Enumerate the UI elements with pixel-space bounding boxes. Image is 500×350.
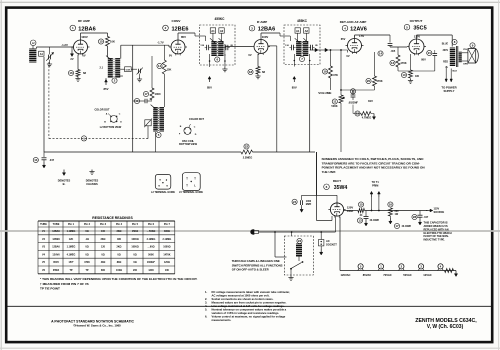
wire V3 plate to IF2 [261,33,290,41]
svg-text:2.1MEG: 2.1MEG [163,238,172,241]
AC socket [319,232,338,255]
resistor R4 15K AVC [157,45,172,107]
oscillator grid capacitor C5 56MMF [133,98,152,103]
svg-text:TUBE: TUBE [53,223,60,226]
svg-text:COLOR DOT: COLOR DOT [95,109,110,112]
resistance readings table title [92,216,133,220]
svg-text:0V: 0V [169,54,172,58]
tuning capacitor C1A [46,47,53,67]
svg-text:0Ω: 0Ω [85,246,88,249]
V1 cathode lead [77,55,79,70]
svg-text:2.1MEG: 2.1MEG [147,238,156,241]
svg-text:MMF: MMF [306,203,312,206]
svg-text:14: 14 [379,52,383,56]
svg-text:100: 100 [165,269,170,272]
resistor R10 4.7MEG [353,107,376,120]
svg-text:455KC: 455KC [297,19,308,23]
resistor R2 10K screen dropper [98,33,115,58]
wire V4 plate coupling [355,35,391,43]
svg-text:0V: 0V [82,54,85,58]
voltage -1.2V at V1 grid [61,43,68,47]
svg-text:115V: 115V [434,208,440,211]
wire V3 stage return to bus [269,46,277,152]
svg-text:ZENITH MODELS C634C,: ZENITH MODELS C634C, [415,318,477,324]
svg-text:19: 19 [323,70,327,74]
capacitor C11 .02 to cathode line [398,50,437,71]
svg-text:TUBE: TUBE [40,223,47,226]
svg-text:40-40MF: 40-40MF [370,219,380,222]
svg-text:IF AMP: IF AMP [257,20,267,24]
B- bus wire [44,151,315,153]
note text numbers assigned to coils [322,157,425,174]
resistor R9 470K [366,52,383,90]
svg-text:CONV: CONV [172,19,182,23]
svg-text:6.: 6. [205,315,207,319]
oscillator coil ref number [156,132,161,137]
label V1 RF AMP 12BA6 [70,19,96,33]
svg-text:470K: 470K [376,79,382,83]
svg-text:500K: 500K [148,253,154,256]
svg-text:120: 120 [101,246,106,249]
svg-text:2KΩ: 2KΩ [117,246,122,249]
svg-text:SUPPLY: SUPPLY [444,89,455,93]
svg-text:5.6K: 5.6K [126,70,131,72]
svg-text:15: 15 [99,40,103,44]
numbered notes list [205,290,290,322]
footer photofact notation [51,319,134,327]
svg-text:L2 TERMINAL GUIDE: L2 TERMINAL GUIDE [151,191,175,194]
clock timer dashed box [284,236,313,275]
svg-text:65V: 65V [341,37,346,41]
wires to T1 primary [365,191,428,211]
heater V2 [383,264,404,277]
L2 terminal guide box [151,174,175,194]
svg-text:85V: 85V [292,86,297,90]
svg-text:0Ω: 0Ω [117,253,120,256]
svg-text:480: 480 [117,238,122,241]
svg-text:TP: TP [85,269,88,272]
svg-text:measurements.: measurements. [212,318,232,322]
svg-text:3KΩ: 3KΩ [101,238,106,241]
svg-text:10: 10 [402,73,406,77]
svg-text:Measured values are from socke: Measured values are from socket pin to c… [212,301,287,305]
ground V1 cathode [75,77,80,82]
svg-text:85V: 85V [104,87,109,91]
svg-text:BLK: BLK [453,71,458,73]
svg-text:85V: 85V [207,86,212,90]
oscillator grid resistor R5 1000 [143,56,161,100]
heater V5 [341,264,364,277]
svg-text:.047: .047 [49,159,54,162]
tube V5 35C5 [407,37,426,55]
svg-text:85V: 85V [181,35,186,39]
svg-text:DENOTES: DENOTES [86,179,99,183]
svg-text:13: 13 [34,158,38,162]
svg-text:35W4: 35W4 [53,269,60,272]
svg-text:13: 13 [358,219,362,223]
AC line wire [259,217,336,258]
svg-text:16: 16 [389,203,393,207]
V5 voltages [414,35,426,62]
wire antenna to V1 grid [36,47,73,49]
volume control wiring [330,49,375,152]
L5 terminal guide box [179,173,203,194]
filament string resistor [445,269,454,273]
filament string B- return [454,271,457,277]
label TO POWER SUPPLY [441,86,456,94]
V5 cathode resistor R15 180 ohm [401,54,419,83]
svg-text:† MEASURED FROM PIN 7 OF V6: † MEASURED FROM PIN 7 OF V6 [40,282,89,286]
svg-text:455KC: 455KC [215,17,226,21]
tube V1 12BA6 [72,38,90,55]
svg-text:70VAC: 70VAC [383,273,392,277]
speaker [462,43,479,63]
svg-text:35C5: 35C5 [413,26,426,32]
svg-text:80V: 80V [421,58,426,62]
svg-text:PONENT REPLACEMENT AND MAY NOT: PONENT REPLACEMENT AND MAY NOT NECESSARI… [322,166,425,170]
svg-text:12K: 12K [69,238,74,241]
svg-text:COLOR DOT: COLOR DOT [189,118,204,121]
svg-text:1000Ω: 1000Ω [131,238,138,241]
tube V6 35W4 [328,201,345,218]
svg-text:17: 17 [395,224,399,228]
svg-text:INDUCTIVE TYPE.: INDUCTIVE TYPE. [424,239,446,242]
IF transformer T3 455KC first [200,25,236,67]
svg-text:150*: 150* [69,261,74,264]
label V6 RECT 35W4 [324,179,348,191]
svg-text:12BA6: 12BA6 [52,246,60,249]
svg-text:15K: 15K [167,68,172,72]
capacitor C9 .0022MF [348,89,358,107]
svg-text:1200: 1200 [148,269,154,272]
resistance readings table header [40,223,170,226]
svg-text:Nominal tolerance on component: Nominal tolerance on component values ma… [212,308,287,312]
B+ arrow 115V SOURCE [426,208,445,215]
svg-text:0Ω: 0Ω [85,230,88,233]
antenna coil L1 with core slug [29,40,38,63]
svg-text:16: 16 [69,71,73,75]
svg-text:RED: RED [443,61,448,63]
svg-text:100V: 100V [262,35,269,39]
svg-text:3KΩ: 3KΩ [117,230,122,233]
L2 color dot bottom view [95,109,123,129]
V2 voltages [157,35,186,57]
svg-text:TP TIE POINT: TP TIE POINT [40,286,60,290]
svg-text:VOLUME: VOLUME [318,91,331,95]
svg-text:©Howard W. Sams & Co., Inc. 19: ©Howard W. Sams & Co., Inc. 1965 [73,324,121,328]
svg-text:800: 800 [101,269,106,272]
trimmer capacitor C3 [137,68,143,82]
svg-text:RF AMP: RF AMP [78,19,90,23]
filter capacitor C2B 40MF [394,223,411,228]
svg-text:variation of ±15% in voltage a: variation of ±15% in voltage and resista… [212,311,280,315]
svg-text:35C5: 35C5 [53,261,59,264]
svg-text:68: 68 [262,70,265,74]
svg-text:.005: .005 [391,50,396,53]
V1 plate voltage 100V [81,35,88,39]
svg-text:SOURCE: SOURCE [434,211,445,214]
svg-text:0Ω: 0Ω [101,253,104,256]
note through cams and linkages [232,259,283,271]
svg-text:2V: 2V [70,57,73,61]
svg-text:.047: .047 [424,216,429,219]
heater V1 [363,264,384,277]
svg-text:CHASSIS: CHASSIS [86,182,98,186]
wire osc section to bus [133,45,156,152]
transformer T2 ref number [112,76,123,83]
svg-text:1.1MEG: 1.1MEG [67,246,76,249]
svg-text:120Ω: 120Ω [164,261,170,264]
clock solenoid coil [295,238,302,261]
filter capacitor C2A 40MF [357,211,379,227]
svg-text:15: 15 [359,203,363,207]
svg-text:2.: 2. [205,297,207,301]
gang ref number C1 [81,136,86,141]
volume control R8 500K [318,91,345,108]
svg-text:Line voltage maintained at 117: Line voltage maintained at 117 volts for… [212,304,285,308]
svg-text:18: 18 [249,70,253,74]
svg-text:4.: 4. [205,304,207,308]
svg-text:10K: 10K [110,40,115,44]
clock box ground [288,276,293,281]
loop antenna lead wire [43,57,45,152]
svg-text:Socket connections are shown a: Socket connections are shown as bottom v… [212,297,274,301]
svg-text:RESISTANCE READINGS: RESISTANCE READINGS [92,216,133,220]
svg-text:A2: A2 [220,29,224,33]
svg-text:1470K: 1470K [163,253,170,256]
svg-text:12BE6: 12BE6 [52,238,60,241]
output transformer T1 core and secondary [453,46,469,73]
label V2 CONV 12BE6 [163,19,189,33]
capacitor C12 .047 line bypass [33,152,54,168]
svg-text:…50KΩ: …50KΩ [147,230,156,233]
note this capacitor is added [424,222,452,242]
svg-text:V, W (Ch. 6C03): V, W (Ch. 6C03) [427,324,464,330]
svg-text:OF ON-OFF-AUTO & SLEEP.: OF ON-OFF-AUTO & SLEEP. [232,268,270,272]
detector diodes of V4 [310,48,348,52]
svg-text:47K: 47K [333,73,338,77]
title zenith models [415,318,477,330]
svg-text:Pin 7: Pin 7 [164,223,171,226]
resistor R3 5.6K boxed [120,67,137,72]
svg-text:12BA6: 12BA6 [258,27,275,33]
svg-text:2.1: 2.1 [100,67,104,70]
tube V4 12AV6 [346,37,364,54]
svg-text:1000: 1000 [155,92,161,96]
svg-text:1000Ω: 1000Ω [131,246,138,249]
svg-text:A1: A1 [296,29,300,33]
heater V4 [423,264,443,277]
label V5 OUTPUT 35C5 [404,19,426,32]
B+ 85V feed below T2 [104,78,109,91]
svg-text:-1.2V: -1.2V [61,43,68,47]
svg-text:68: 68 [83,71,86,75]
OSC coil color dot bottom view [179,118,205,146]
voltage 81V node [368,99,373,103]
svg-text:200: 200 [133,269,138,272]
svg-text:1600Ω*: 1600Ω* [147,261,155,264]
V6 output voltage [347,206,354,213]
B+ line from rectifier [344,210,358,212]
svg-text:40Ω: 40Ω [101,261,106,264]
svg-text:BLUE: BLUE [442,43,449,45]
label V3 IF AMP 12BA6 [249,20,275,33]
svg-text:12AV6: 12AV6 [350,27,367,33]
svg-text:AC voltages measured at 1000 o: AC voltages measured at 1000 ohms per vo… [212,294,270,298]
svg-text:1.5V: 1.5V [359,34,365,38]
grid resistor R11 470K V5 [390,47,407,71]
svg-text:SOCKET: SOCKET [326,242,337,246]
svg-text:21: 21 [428,51,432,55]
svg-text:4.7MEG: 4.7MEG [362,116,372,120]
svg-text:L2 BOTTOM VIEW: L2 BOTTOM VIEW [100,126,122,129]
svg-text:50VAC: 50VAC [403,273,412,277]
svg-text:PRIM: PRIM [372,184,378,187]
capacitor C13 line filter [292,152,337,212]
svg-text:120V: 120V [347,206,353,210]
svg-text:23: 23 [298,239,302,243]
svg-text:180: 180 [415,75,420,78]
svg-text:1.: 1. [205,290,207,294]
svg-text:0Ω: 0Ω [133,253,136,256]
svg-text:3.: 3. [205,301,207,305]
coupling capacitor C10 .005 [378,44,407,57]
svg-text:TP: TP [69,269,72,272]
label V4 DET-AUD-AF AMP 12AV6 [340,20,367,32]
svg-text:DET-AUD-AF AMP: DET-AUD-AF AMP [340,20,367,24]
svg-text:0Ω: 0Ω [133,261,136,264]
legend denotes chassis [86,170,99,187]
svg-text:YEL: YEL [463,49,468,51]
table footnotes [40,277,198,290]
svg-text:Volume control at maximum, no: Volume control at maximum, no signal app… [212,315,286,319]
B+ 85V feed under IF2 [292,76,297,89]
tuning gang dashed linkage [49,62,148,139]
svg-text:81V: 81V [368,99,373,103]
svg-text:100: 100 [101,230,106,233]
svg-text:2.2MEG: 2.2MEG [243,155,253,159]
svg-text:12BA6: 12BA6 [52,230,60,233]
label T2 455KC [215,17,226,21]
svg-text:DC voltage measurements taken: DC voltage measurements taken with vacuu… [212,290,291,294]
tube V3 12BA6 [252,38,270,55]
svg-text:12AV6: 12AV6 [52,253,60,256]
svg-text:0V: 0V [248,53,251,57]
svg-text:Pin 5: Pin 5 [132,223,139,226]
label TO T1 PRIM [372,181,380,187]
svg-text:-1.7V: -1.7V [157,41,164,45]
svg-text:80Ω: 80Ω [117,261,122,264]
svg-text:Pin 6: Pin 6 [148,223,155,226]
svg-text:A2: A2 [305,29,309,33]
label T3 455KC [297,19,308,23]
svg-text:THE UNIT.: THE UNIT. [322,170,337,174]
transformer T2 primary winding [100,58,114,78]
svg-text:.1Ω: .1Ω [85,238,89,241]
capacitor C14 .047 added [412,211,429,226]
V4 voltages [341,34,365,58]
tube V2 12BE6 [169,38,187,55]
oscillator trimmer C1B boxed [144,119,152,139]
svg-text:100Ω: 100Ω [116,269,122,272]
svg-text:RECT: RECT [333,179,341,183]
transformer T2 secondary winding [106,56,121,78]
svg-text:Pin 3: Pin 3 [100,223,107,226]
wire T2 secondary to V2 grid [121,45,169,58]
svg-text:…60Ω: …60Ω [148,246,155,249]
svg-text:85VAC: 85VAC [363,273,372,277]
svg-text:B-: B- [63,182,66,186]
resistance readings table grid [38,221,175,274]
B+ 85V feed under IF1 [207,76,212,89]
wire V2 plate to IF1 [178,33,206,41]
svg-text:14: 14 [158,64,162,68]
svg-text:100V: 100V [81,35,88,39]
svg-text:120VAC: 120VAC [341,273,351,277]
title block separator line [6,305,492,307]
resistor R6 68 ohm V3 cathode [248,54,266,79]
svg-text:.0022MF: .0022MF [348,101,358,104]
svg-text:12BA6: 12BA6 [78,27,95,33]
filter resistor R14 600 ohm [388,202,399,224]
wire IF2 return to bus [309,67,311,153]
wire IF1 to V3 grid [222,44,252,72]
output transformer T1 primary [442,39,457,69]
AC line cord plug [251,230,259,235]
svg-text:DENOTES: DENOTES [58,179,71,183]
resistor R1 68 ohm V1 cathode [68,70,86,77]
svg-text:35W4: 35W4 [334,185,348,191]
filament string wire [340,217,456,271]
svg-text:12BE6: 12BE6 [171,27,188,33]
svg-text:4.1MEG: 4.1MEG [67,253,76,256]
svg-text:A1: A1 [211,29,215,33]
svg-text:470K: 470K [400,61,406,65]
svg-text:500K: 500K [331,104,337,108]
svg-text:17: 17 [144,92,148,96]
svg-text:0V: 0V [346,54,349,58]
wires to power supply [445,66,452,82]
oscillator coil L5 [151,105,165,132]
svg-text:20: 20 [367,79,371,83]
svg-text:BOTTOM VIEW: BOTTOM VIEW [179,143,198,146]
svg-text:11: 11 [333,100,336,104]
svg-text:Pin 4: Pin 4 [116,223,123,226]
wire bus to rectifier [317,152,333,221]
svg-text:Pin 1: Pin 1 [68,223,75,226]
resistor R12 2.2MEG in bus [241,144,253,160]
svg-text:* THIS READING WILL VARY DEPEN: * THIS READING WILL VARY DEPENDING UPON … [40,277,198,281]
svg-text:L5 TERMINAL GUIDE: L5 TERMINAL GUIDE [179,191,203,194]
svg-text:0Ω: 0Ω [85,253,88,256]
surge resistor R13 44 ohm [358,202,365,217]
resistance readings table rows [42,230,171,272]
V1 cathode voltages [70,54,85,62]
svg-text:5.: 5. [205,308,207,312]
antenna trimmer box A1 [39,51,44,56]
svg-text:330Ω: 330Ω [164,230,170,233]
legend denotes B- [58,170,71,187]
wire V1 plate to B+ rail [81,33,108,38]
svg-text:12VAC: 12VAC [423,273,432,277]
svg-text:22: 22 [245,145,249,149]
AVC resistor R7 47K [322,50,338,90]
V1 grid return arrow [70,47,73,57]
svg-text:13: 13 [391,61,395,65]
svg-text:40-40MF: 40-40MF [402,225,412,228]
svg-text:AC: AC [326,239,330,243]
IF transformer T4 455KC second [284,25,320,67]
